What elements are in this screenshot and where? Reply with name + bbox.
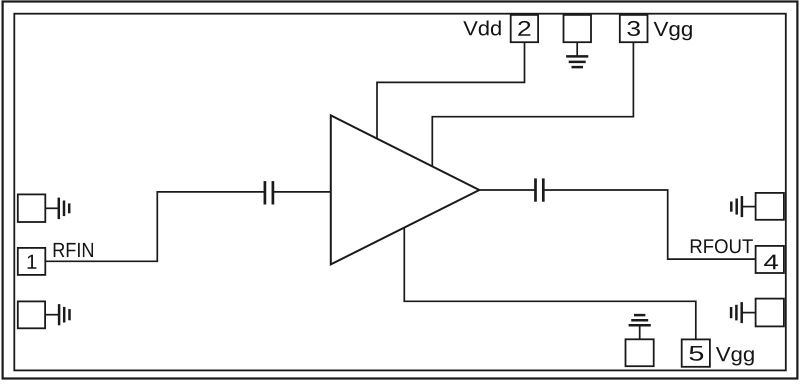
capacitor C1 (input DC block) [265,181,273,204]
wire RFIN pad 1 to capacitor C1 [45,192,264,261]
ground (upper-left, right-pointing) [45,198,69,220]
label Vdd [463,20,500,35]
wire amplifier output to capacitor C2 [479,189,534,191]
ground pad lower-right [756,299,784,327]
ground (lower-left, right-pointing) [45,304,69,325]
pin 4 label [764,255,778,270]
wire pad 2 to amplifier (Vdd feed) [377,42,525,139]
pad 4 (RFOUT) [756,246,784,273]
ground (upper-right, left-pointing) [731,196,755,217]
op-amp U1 amplifier triangle [331,115,480,264]
pin 2 label [518,21,530,36]
wire capacitor C1 to amplifier input [274,191,331,193]
pin 3 label [627,21,640,36]
ground pad lower-left [18,301,45,328]
ground pad upper-right [756,193,784,220]
wire pad 3 to amplifier (Vgg feed) [432,42,633,166]
bottom bypass pad [626,339,654,366]
ground (bottom bypass pad, up-pointing) [629,315,651,339]
ground (top bypass pad) [566,42,588,67]
pad 5 (Vgg) [682,339,710,366]
ground pad upper-left [18,194,46,222]
label Vgg (pin 3) [654,22,692,40]
wire capacitor C2 to pad 4 (RFOUT) [544,190,755,259]
label Vgg (pin 5) [716,347,754,365]
wire amplifier to pad 5 (Vgg feed) [404,228,696,340]
ground (lower-right, left-pointing) [731,302,756,323]
pad 2 (Vdd) [511,15,538,42]
capacitor C2 (output DC block) [536,178,544,201]
pad 3 (Vgg) [620,15,648,42]
label RFIN [54,243,93,257]
pad 1 (RFIN) [18,248,46,275]
top bypass pad [564,15,592,42]
label RFOUT [691,239,753,253]
pin 5 label [690,346,704,361]
pin 1 label [28,255,37,269]
